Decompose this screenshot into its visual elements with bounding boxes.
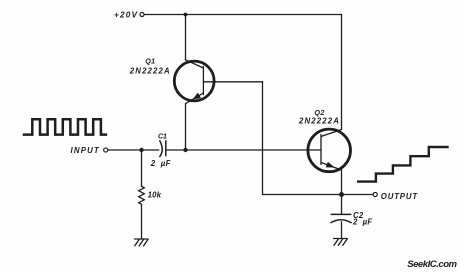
svg-text:C1: C1 — [158, 134, 167, 141]
transistor Q1 — [174, 60, 215, 104]
wire node to Q2 base — [186, 149, 322, 151]
node output junction — [339, 192, 344, 197]
wire Q2 emitter drop — [341, 170, 343, 195]
svg-text:2: 2 — [352, 218, 358, 227]
ground (output side) — [334, 239, 348, 246]
capacitor C1 — [160, 141, 166, 157]
wire feedback vertical — [262, 82, 264, 195]
svg-text:SeekIC.com: SeekIC.com — [407, 259, 457, 270]
node emitter/cap junction — [183, 148, 187, 152]
wire Q2 collector drop — [341, 15, 343, 130]
node top rail junction — [184, 13, 188, 17]
supply terminal +20V — [140, 13, 144, 17]
svg-text:OUTPUT: OUTPUT — [381, 192, 419, 201]
wire C2 to ground — [341, 222, 343, 239]
svg-text:INPUT: INPUT — [71, 146, 100, 155]
resistor R1 10k — [139, 186, 145, 204]
wire top rail — [144, 14, 341, 16]
wire C1 to node — [166, 149, 183, 151]
wire to C1 — [142, 149, 159, 151]
svg-text:2: 2 — [150, 159, 156, 168]
transistor Q2 — [308, 129, 351, 172]
input terminal — [104, 148, 108, 152]
svg-text:2N2222A: 2N2222A — [298, 116, 340, 125]
wire to output — [342, 194, 373, 196]
node input junction — [139, 148, 143, 152]
wire to C2 — [341, 195, 343, 214]
ground (input side) — [135, 239, 148, 246]
wire Q1 collector — [185, 15, 187, 60]
wire input — [108, 149, 139, 151]
wire Q1 emitter drop — [185, 104, 187, 150]
svg-text:µF: µF — [362, 218, 373, 227]
svg-text:+20V: +20V — [114, 11, 138, 20]
output staircase waveform — [358, 147, 447, 182]
wire Q1 base to right — [216, 81, 263, 83]
wire feedback to emitter node — [263, 194, 342, 196]
wire resistor top — [141, 150, 143, 186]
output terminal — [373, 192, 377, 196]
wire resistor bottom — [141, 204, 143, 239]
input square wave — [24, 119, 106, 134]
svg-text:µF: µF — [160, 159, 171, 168]
capacitor C2 — [331, 214, 351, 222]
svg-text:10k: 10k — [148, 191, 162, 200]
svg-text:2N2222A: 2N2222A — [129, 67, 171, 76]
svg-text:Q1: Q1 — [145, 57, 155, 66]
